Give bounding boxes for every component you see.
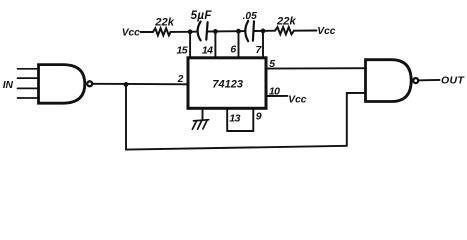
svg-text:15: 15 <box>177 45 188 57</box>
wire loop bottom (13 to 9) <box>227 130 253 132</box>
wire riser to G2 lower input <box>347 92 366 94</box>
wire node A to capacitor <box>190 31 198 33</box>
svg-text:Vcc: Vcc <box>317 26 335 37</box>
wire pin 15 <box>189 32 191 58</box>
svg-text:Vcc: Vcc <box>288 95 306 106</box>
wire G1 input 3 <box>18 87 39 89</box>
resistor 22k right <box>275 27 294 34</box>
node A junction dot (pin15) <box>188 29 193 34</box>
wire pin 13 <box>226 108 228 131</box>
wire feedback right riser <box>346 93 348 146</box>
NAND gate G2 (output) <box>366 60 412 102</box>
svg-text:2: 2 <box>177 74 184 85</box>
svg-text:14: 14 <box>202 45 213 57</box>
node C junction dot (pin6) <box>236 29 241 34</box>
wire resistor to node A <box>171 31 190 33</box>
wire node D to resistor <box>263 30 275 32</box>
svg-text:6: 6 <box>230 44 236 56</box>
wire pin 5 to G2 upper input <box>266 67 366 69</box>
node E junction dot on pin2 wire <box>124 82 129 87</box>
svg-text:.05: .05 <box>243 11 257 22</box>
node B junction dot (pin14) <box>213 29 218 34</box>
G1 output bubble <box>87 81 92 86</box>
wire feedback left drop <box>125 84 127 149</box>
ground symbol <box>192 120 208 130</box>
wire G1 input 1 <box>18 68 39 70</box>
svg-text:22k: 22k <box>154 17 174 29</box>
svg-text:Vcc: Vcc <box>122 27 140 38</box>
resistor 22k left <box>153 28 171 35</box>
wire pin 10 <box>266 95 288 97</box>
wire G1 output to pin 2 <box>93 83 188 86</box>
wire resistor to Vcc right <box>294 30 317 32</box>
wire pin 6 <box>238 31 240 58</box>
wire G2 output <box>419 79 439 81</box>
svg-text:IN: IN <box>3 80 14 91</box>
wire pin 7 <box>262 31 264 58</box>
svg-text:10: 10 <box>269 85 280 97</box>
svg-text:5: 5 <box>269 58 275 70</box>
wire capacitor to node B <box>207 30 215 32</box>
wire feedback bottom run <box>126 146 347 150</box>
capacitor 5uF <box>198 22 201 41</box>
wire node B to node C <box>215 30 238 32</box>
wire pin 9 <box>252 108 254 131</box>
node D junction dot (pin7) <box>261 29 266 34</box>
wire Vcc to resistor <box>141 31 154 33</box>
wire pin 14 <box>214 31 216 58</box>
svg-text:OUT: OUT <box>441 75 465 87</box>
svg-text:22k: 22k <box>276 16 296 28</box>
capacitor .05 <box>245 21 248 41</box>
wire node C to capacitor .05 <box>239 30 245 32</box>
op-amp/IC U1 74123 body <box>188 58 266 109</box>
wire G1 input 2 <box>18 77 39 79</box>
ground stub wire <box>202 108 204 120</box>
wire capacitor to node D <box>254 30 263 32</box>
NAND gate G1 (input) <box>39 65 85 104</box>
svg-text:74123: 74123 <box>212 78 243 90</box>
svg-text:9: 9 <box>256 110 262 122</box>
wire G1 input 4 <box>18 97 39 99</box>
G2 output bubble <box>413 78 418 83</box>
svg-text:13: 13 <box>229 112 240 124</box>
svg-text:5µF: 5µF <box>191 10 213 22</box>
